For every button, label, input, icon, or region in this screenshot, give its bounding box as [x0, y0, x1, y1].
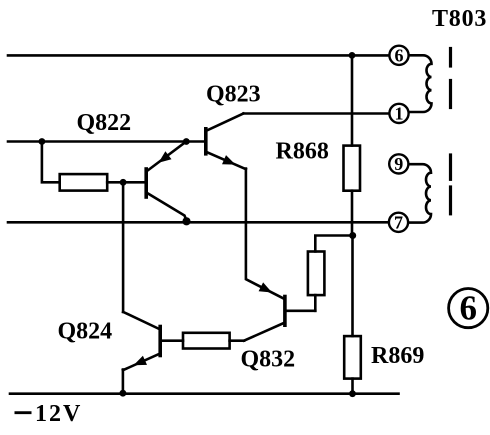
label -12V	[15, 401, 83, 427]
emitter arrow Q832	[259, 282, 272, 292]
node dot Q822 emitter / Q823 base	[183, 138, 190, 145]
wire node B down to Q824 collector	[122, 182, 125, 312]
svg-text:9: 9	[394, 154, 403, 174]
svg-text:Q832: Q832	[241, 347, 296, 373]
emitter arrow Q822	[159, 151, 172, 163]
resistor (Q824 base)	[183, 333, 230, 349]
emitter arrow Q823	[222, 155, 236, 165]
wire from node A down to left resistor	[42, 142, 60, 183]
resistor (Q822 base)	[60, 174, 107, 191]
wire Q832 collector to base resistor	[230, 339, 244, 342]
T803 winding 9-7	[409, 164, 432, 222]
wire R868 to node C	[351, 191, 354, 236]
T803 winding 6-1	[409, 55, 432, 112]
wire top bus to R868	[351, 55, 354, 145]
node dot Q824 emitter on -12V bus	[120, 390, 127, 397]
transistor Q832	[244, 297, 315, 341]
transistor Q823	[206, 114, 246, 170]
pin 6 circle	[389, 46, 408, 65]
T803 core dashed line	[449, 49, 452, 214]
node dot B Q822 base	[120, 179, 127, 186]
transistor Q824	[123, 312, 160, 370]
resistor (Q832)	[308, 252, 325, 296]
wire Q823 emitter down to Q832	[246, 169, 285, 300]
resistor R869	[344, 336, 361, 379]
pin 7 circle	[389, 213, 408, 232]
svg-text:6: 6	[395, 45, 404, 65]
svg-text:Q822: Q822	[77, 110, 132, 136]
svg-text:T803: T803	[432, 6, 487, 32]
wire node C to R869	[351, 236, 354, 337]
svg-text:12V: 12V	[35, 401, 82, 427]
wire Q832 base to emitter resistor	[314, 295, 317, 311]
wire top bus to T803 pin 6	[8, 54, 390, 57]
svg-text:7: 7	[394, 212, 403, 232]
emitter arrow Q824	[134, 356, 148, 366]
wire input line to Q822/Q823	[8, 140, 206, 143]
svg-text:Q823: Q823	[206, 82, 261, 108]
svg-text:R868: R868	[276, 139, 329, 165]
svg-text:1: 1	[395, 103, 404, 123]
transistor Q822	[146, 142, 186, 221]
resistor R868	[344, 146, 361, 191]
node dot R869 on -12V bus	[349, 390, 356, 397]
wire T803 pin 7 bus	[8, 221, 389, 224]
svg-text:Q824: Q824	[58, 319, 113, 345]
pin 9 circle	[389, 154, 408, 173]
node dot C	[349, 232, 356, 239]
wire resistor up to node C	[315, 236, 352, 252]
wire T803 pin 1 line	[243, 112, 389, 115]
node dot on top bus	[349, 52, 356, 59]
wire -12V bus	[10, 392, 399, 395]
svg-text:R869: R869	[371, 343, 424, 369]
symbol circled 6 (sheet ref)	[449, 289, 488, 328]
node dot Q822 collector on pin7 bus	[182, 217, 190, 225]
pin 1 circle	[389, 104, 408, 123]
node dot A input line	[39, 138, 46, 145]
wire resistor to Q824 base	[162, 339, 183, 342]
wire R869 to -12V bus	[351, 379, 354, 394]
wire resistor to Q822 base	[107, 181, 146, 184]
svg-text:6: 6	[459, 289, 477, 328]
wire Q824 emitter to -12V bus	[122, 370, 125, 394]
